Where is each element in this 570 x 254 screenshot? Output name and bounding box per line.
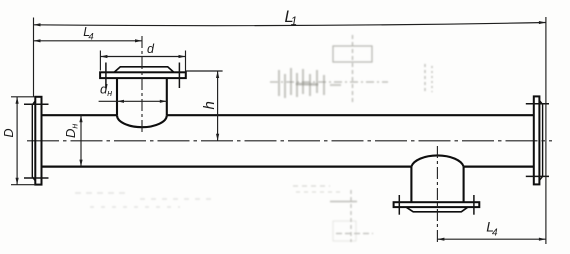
bleed-through smudge cluster left of box — [279, 68, 324, 98]
dimension h line — [217, 71, 219, 141]
extension line left (L1/L4) — [33, 18, 35, 97]
dimension D arrows — [16, 97, 19, 185]
top branch centerline — [141, 36, 143, 134]
svg-text:D: D — [2, 128, 16, 137]
bottom branch bolt line left — [398, 195, 400, 215]
bleed-through faint left-bottom — [75, 193, 215, 207]
bottom branch flange neck trapezoid — [406, 207, 468, 212]
right flange bolt line top — [526, 103, 549, 105]
dimension L4 top arrows — [34, 39, 143, 42]
dimension L4 bottom arrows — [437, 238, 546, 241]
bottom branch left wall — [410, 167, 412, 203]
bleed-through smudge top — [270, 35, 432, 103]
bottom branch centerline — [436, 146, 438, 244]
top branch flange plate — [100, 72, 186, 78]
svg-text:d: d — [147, 42, 155, 56]
bottom branch flange plate — [394, 202, 480, 207]
svg-text:L4: L4 — [486, 219, 498, 239]
right flange plate — [534, 96, 540, 184]
dimension D extension lines — [11, 97, 35, 185]
bottom branch right wall — [463, 167, 465, 203]
top branch left wall — [116, 78, 118, 115]
main pipe centerline — [27, 140, 552, 142]
dimension D_n line — [80, 115, 82, 166]
svg-text:L1: L1 — [285, 8, 298, 28]
top branch bolt line right — [178, 63, 180, 89]
svg-text:dн: dн — [100, 81, 112, 98]
left flange bolt line bottom — [24, 177, 49, 179]
svg-text:Dн: Dн — [63, 124, 80, 138]
dimension d_n arrows — [117, 100, 167, 103]
left flange plate — [35, 97, 41, 185]
dimension D_n arrows — [79, 115, 82, 166]
dimension L4 bottom line — [437, 238, 546, 240]
top branch bolt line left — [105, 63, 107, 89]
dimension h arrows — [216, 71, 219, 141]
dimension h extension line — [186, 70, 223, 72]
left flange bolt line top — [24, 103, 49, 105]
dimension d_n line with leader — [99, 100, 167, 102]
main pipe bottom wall — [42, 166, 534, 168]
bottom branch dome inside pipe — [411, 155, 463, 166]
bottom branch bolt line right — [473, 195, 475, 215]
dimension d arrows — [100, 55, 185, 58]
left flange raised face — [32, 101, 35, 181]
svg-text:L4: L4 — [83, 25, 93, 42]
right flange raised face — [539, 100, 542, 180]
dimension d line — [100, 56, 185, 58]
dimension L4 top line — [34, 40, 143, 42]
top branch right wall — [166, 78, 168, 115]
dimension d extension lines — [100, 51, 185, 72]
top branch flange neck trapezoid — [114, 67, 174, 73]
bleed-through smudge bottom — [293, 186, 373, 242]
extension line right (L1/L4 bottom) — [545, 17, 547, 244]
dimension L1 line — [34, 23, 546, 26]
dimension D line — [16, 97, 18, 185]
right flange bolt line bottom — [526, 175, 549, 177]
dimension L1 arrows — [34, 21, 546, 26]
svg-text:h: h — [201, 101, 218, 109]
main pipe top wall — [42, 114, 534, 116]
top branch dome inside pipe — [117, 115, 167, 127]
